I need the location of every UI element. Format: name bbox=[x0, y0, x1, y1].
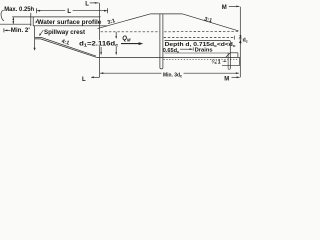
node spillway leader head bbox=[39, 33, 41, 36]
svg-text:M: M bbox=[224, 77, 229, 83]
node surcharge up arrowhead bbox=[12, 17, 14, 20]
wire L section top arrow bbox=[90, 2, 99, 4]
wire L-L section line lower bbox=[99, 46, 101, 77]
wire core wall right line bbox=[162, 14, 164, 68]
node min3dc left arrowhead bbox=[100, 72, 103, 74]
node M top arrowhead bbox=[236, 6, 239, 8]
vertical double arrow surcharge bbox=[12, 17, 14, 24]
node depth arrow B upper head bbox=[115, 36, 117, 39]
wire M top arrow bbox=[229, 5, 240, 7]
wire sill top bbox=[230, 52, 238, 54]
node surcharge down arrowhead bbox=[12, 21, 14, 24]
node L top arrowhead bbox=[95, 2, 98, 4]
wire upper dashed water line left bbox=[101, 31, 160, 33]
dimension L line bbox=[37, 8, 108, 13]
wire basin end bracket vertical bbox=[227, 53, 229, 69]
wire basin end wall vertical bbox=[229, 41, 231, 69]
wire M-M section line bbox=[239, 7, 241, 78]
wire min2 leader arrow bbox=[5, 29, 11, 31]
wire basin end bracket horizontal bbox=[228, 68, 230, 71]
svg-text:M: M bbox=[222, 5, 227, 11]
wire core wall left line bbox=[159, 14, 161, 68]
wire lower dashed end tick bbox=[233, 36, 235, 40]
wire box bottom / crest level line bbox=[33, 25, 107, 27]
svg-text:Min. 3dc: Min. 3dc bbox=[163, 73, 183, 79]
svg-text:L: L bbox=[82, 77, 86, 83]
wire min 3dc dim line right bbox=[184, 72, 240, 74]
svg-text:Max. 0.25h: Max. 0.25h bbox=[4, 7, 34, 13]
wire left vertical tick bbox=[30, 13, 32, 26]
node cutoff arrowhead bbox=[34, 48, 36, 51]
node L bottom arrowhead bbox=[91, 76, 94, 78]
wire depth arrow B lower bbox=[115, 47, 117, 53]
brace max water level bbox=[1, 10, 4, 21]
node 0.65dc arrowhead bbox=[190, 48, 193, 50]
wire dam upstream slope bbox=[98, 14, 151, 29]
wire 0.65dc tick bbox=[192, 47, 194, 50]
wire basin floor bbox=[96, 56, 239, 58]
node depth arrow A head bbox=[100, 52, 102, 55]
wire depth arrow B upper bbox=[115, 32, 117, 38]
wire basin end vertical bbox=[239, 57, 241, 65]
svg-text:d1=2.116dc: d1=2.116dc bbox=[79, 42, 119, 48]
wire L-L section line upper bbox=[99, 3, 101, 40]
wire M bottom arrow bbox=[232, 76, 240, 78]
wire upper dashed water line right bbox=[164, 30, 238, 32]
node M bottom arrowhead bbox=[237, 76, 240, 78]
svg-text:dc: dc bbox=[243, 37, 248, 43]
node QM arrowhead bbox=[139, 42, 144, 45]
svg-text:¼:1: ¼:1 bbox=[211, 58, 220, 65]
wire L section bottom arrow bbox=[92, 76, 100, 78]
wire water leader arrow bbox=[36, 19, 38, 23]
wire 0.65dc arrow bbox=[180, 48, 192, 50]
svg-text:Water surface profile: Water surface profile bbox=[37, 19, 102, 26]
wire approach channel floor bbox=[0, 23, 31, 25]
svg-text:Spillway crest: Spillway crest bbox=[44, 30, 85, 36]
node min2 arrowhead bbox=[4, 30, 7, 32]
wire spillway leader bbox=[40, 30, 44, 35]
svg-text:Min. 2': Min. 2' bbox=[11, 28, 31, 34]
svg-text:L: L bbox=[67, 8, 71, 15]
svg-text:QM: QM bbox=[122, 36, 131, 42]
wire sill front slope bbox=[226, 53, 231, 58]
svg-text:4:1: 4:1 bbox=[61, 39, 70, 47]
wire fraction bar bbox=[239, 38, 242, 40]
wire apron line bbox=[165, 52, 230, 54]
node dim L right arrowhead bbox=[104, 10, 107, 12]
svg-text:3:1: 3:1 bbox=[107, 18, 116, 26]
wire cutoff wall below crest start bbox=[34, 26, 36, 49]
node water leader head bbox=[36, 21, 38, 24]
svg-text:L: L bbox=[85, 1, 89, 7]
wire min 3dc dim line left bbox=[100, 72, 162, 74]
wire min2 tick bbox=[3, 28, 5, 32]
wire QM flow arrow bbox=[121, 43, 141, 45]
wire depth arrow A bbox=[100, 47, 102, 53]
wire box left edge bbox=[32, 17, 34, 26]
wire chute slab top line bbox=[35, 37, 96, 56]
node dim L left arrowhead bbox=[37, 10, 40, 12]
wire lower dashed tailwater line bbox=[164, 37, 234, 39]
svg-text:3:1: 3:1 bbox=[203, 16, 212, 24]
wire dam downstream slope bbox=[183, 14, 239, 31]
wire tailwater surface line bbox=[165, 40, 231, 42]
node min3dc right arrowhead bbox=[236, 72, 239, 74]
wire dam crest bbox=[150, 13, 182, 15]
wire chute slab bottom line bbox=[35, 39, 96, 57]
wire core wall bottom join bbox=[160, 67, 163, 70]
node depth arrow B lower head bbox=[115, 52, 117, 55]
wire drain dotted line bbox=[164, 58, 239, 60]
wire reservoir water surface / box top bbox=[13, 16, 101, 18]
wire sill end tick bbox=[237, 53, 239, 58]
